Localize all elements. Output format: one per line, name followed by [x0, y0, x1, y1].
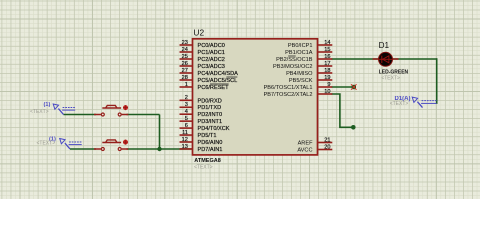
- svg-text:12: 12: [182, 137, 188, 143]
- svg-text:U2: U2: [193, 28, 204, 38]
- push button 2: [94, 140, 128, 151]
- svg-text:1: 1: [185, 82, 188, 88]
- svg-text:17: 17: [324, 61, 330, 67]
- svg-text:PD6/AIN0: PD6/AIN0: [198, 140, 223, 146]
- U2 pin 11 (PD5/T1): [180, 130, 217, 139]
- svg-text:18: 18: [324, 68, 330, 74]
- overline SS (pin16): [288, 55, 296, 57]
- svg-text:PC6/RESET: PC6/RESET: [198, 85, 230, 91]
- U2 pin 19 (PB5/SCK): [289, 75, 332, 84]
- U2 pin 25 (PC2/ADC2): [180, 54, 225, 63]
- U2 pin 15 (PB1/OC1A): [285, 47, 332, 56]
- U2 pin 1 (PC6/RESET): [180, 82, 230, 91]
- push button 1: [94, 105, 128, 116]
- svg-text:<TEXT>: <TEXT>: [194, 164, 213, 170]
- overline SCL (pin28): [226, 76, 237, 78]
- svg-text:11: 11: [182, 130, 188, 136]
- svg-text:PC5/ADC5/SCL: PC5/ADC5/SCL: [198, 78, 238, 84]
- svg-text:PD0/RXD: PD0/RXD: [198, 98, 222, 104]
- svg-text:4: 4: [185, 109, 188, 115]
- U2 pin 10 (PB7/TOSC2/XTAL2): [264, 89, 333, 98]
- svg-text:PB3/MOSI/OC2: PB3/MOSI/OC2: [273, 64, 312, 70]
- svg-text:PB5/SCK: PB5/SCK: [289, 78, 313, 84]
- svg-text:<TEXT>: <TEXT>: [381, 75, 400, 81]
- svg-text:21: 21: [324, 137, 330, 143]
- svg-text:6: 6: [185, 123, 188, 129]
- svg-text:9: 9: [327, 82, 330, 88]
- node end marker on pin9 net: [352, 85, 356, 89]
- IC U2 body: [193, 39, 318, 155]
- wire PB7 pin10 down and right: [332, 94, 354, 127]
- U2 pin 17 (PB3/MOSI/OC2): [273, 61, 332, 70]
- svg-text:PD1/TXD: PD1/TXD: [198, 105, 222, 111]
- svg-text:25: 25: [182, 54, 188, 60]
- svg-text:20: 20: [324, 144, 330, 150]
- svg-text:PD5/T1: PD5/T1: [198, 133, 217, 139]
- voltage probe D1(A): [412, 97, 436, 108]
- LED D1: [373, 52, 399, 66]
- wire button1 row to vertical bus: [64, 114, 160, 116]
- wire vertical joining buttons: [159, 115, 161, 150]
- svg-text:23: 23: [182, 40, 188, 46]
- svg-text:15: 15: [324, 47, 330, 53]
- wire PB2 pin16 to LED D1: [332, 58, 437, 60]
- svg-text:PB1/OC1A: PB1/OC1A: [285, 50, 313, 56]
- U2 pin 20 (AVCC): [297, 144, 332, 153]
- U2 pin 24 (PC1/ADC1): [180, 47, 225, 56]
- svg-text:D1: D1: [379, 41, 390, 50]
- svg-text:14: 14: [324, 40, 330, 46]
- U2 pin 4 (PD2/INT0): [180, 109, 223, 118]
- U2 pin 28 (PC5/ADC5/SCL): [180, 75, 238, 84]
- wire button2 row to pin13 PD7: [70, 148, 193, 150]
- svg-text:10: 10: [324, 89, 330, 95]
- svg-text:AVCC: AVCC: [297, 148, 312, 154]
- svg-text:PC3/ADC3: PC3/ADC3: [198, 64, 225, 70]
- wire D1 anode down to probe node: [436, 58, 438, 104]
- svg-text:PB7/TOSC2/XTAL2: PB7/TOSC2/XTAL2: [264, 92, 313, 98]
- svg-text:28: 28: [182, 75, 188, 81]
- voltage probe (1) lower: [60, 139, 82, 150]
- svg-text:PC0/ADC0: PC0/ADC0: [198, 43, 225, 49]
- U2 pin 21 (AREF): [298, 137, 333, 146]
- svg-text:PB2/SS/OC1B: PB2/SS/OC1B: [276, 57, 313, 63]
- U2 pin 26 (PC3/ADC3): [180, 61, 225, 70]
- svg-text:<TEXT>: <TEXT>: [37, 141, 56, 147]
- U2 pin 13 (PD7/AIN1): [180, 144, 223, 153]
- svg-text:AREF: AREF: [298, 141, 314, 147]
- svg-text:PD2/INT0: PD2/INT0: [198, 112, 223, 118]
- U2 pin 2 (PD0/RXD): [180, 95, 222, 104]
- svg-text:16: 16: [324, 54, 330, 60]
- svg-text:13: 13: [182, 144, 188, 150]
- svg-text:26: 26: [182, 61, 188, 67]
- svg-text:PC4/ADC4/SDA: PC4/ADC4/SDA: [198, 71, 239, 77]
- svg-text:PD7/AIN1: PD7/AIN1: [198, 147, 223, 153]
- U2 pin 3 (PD1/TXD): [180, 102, 222, 111]
- svg-text:(1): (1): [44, 102, 51, 108]
- overline RESET (pin1): [210, 83, 229, 85]
- svg-text:ATMEGA8: ATMEGA8: [194, 158, 220, 164]
- svg-text:PC1/ADC1: PC1/ADC1: [198, 50, 225, 56]
- U2 pin 9 (PB6/TOSC1/XTAL1): [264, 82, 333, 91]
- svg-text:27: 27: [182, 68, 188, 74]
- U2 pin 6 (PD4/T0/XCK): [180, 123, 230, 132]
- svg-text:3: 3: [185, 102, 188, 108]
- svg-text:PB0/ICP1: PB0/ICP1: [288, 43, 313, 49]
- junction node buttons net: [157, 147, 161, 151]
- svg-text:PB4/MISO: PB4/MISO: [286, 71, 313, 77]
- wire PB6 pin9 stub net: [332, 86, 354, 88]
- node dot end of PB7 net: [351, 125, 356, 130]
- svg-text:<TEXT>: <TEXT>: [390, 101, 409, 107]
- U2 pin 14 (PB0/ICP1): [288, 40, 332, 49]
- U2 pin 16 (PB2/SS/OC1B): [276, 54, 332, 63]
- U2 pin 18 (PB4/MISO): [286, 68, 332, 77]
- svg-text:19: 19: [324, 75, 330, 81]
- svg-text:PC2/ADC2: PC2/ADC2: [198, 57, 225, 63]
- U2 pin 27 (PC4/ADC4/SDA): [180, 68, 239, 77]
- svg-text:PD3/INT1: PD3/INT1: [198, 119, 223, 125]
- svg-text:5: 5: [185, 116, 188, 122]
- voltage probe (1) upper: [53, 104, 75, 115]
- svg-text:<TEXT>: <TEXT>: [30, 109, 49, 115]
- svg-text:2: 2: [185, 95, 188, 101]
- U2 pin 23 (PC0/ADC0): [180, 40, 225, 49]
- svg-text:PD4/T0/XCK: PD4/T0/XCK: [198, 126, 230, 132]
- U2 pin 12 (PD6/AIN0): [180, 137, 223, 146]
- svg-text:24: 24: [182, 47, 188, 53]
- svg-text:PB6/TOSC1/XTAL1: PB6/TOSC1/XTAL1: [264, 85, 313, 91]
- U2 pin 5 (PD3/INT1): [180, 116, 223, 125]
